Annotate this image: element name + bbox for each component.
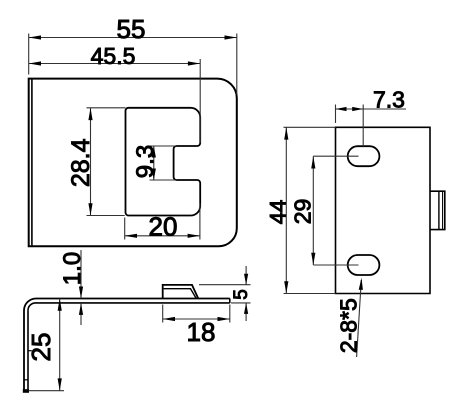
side view horizontal strip top edge with left bend <box>24 299 230 311</box>
dimension 25 extension line <box>29 390 64 392</box>
svg-text:28.4: 28.4 <box>67 138 95 187</box>
dimension 1.0 upper arrow line <box>80 250 82 299</box>
right view bottom slot <box>348 255 380 275</box>
dimension 5 upper arrow line <box>245 266 247 285</box>
dimension 20 line <box>125 235 200 237</box>
svg-text:20: 20 <box>149 212 178 242</box>
dimension 45.5 line <box>29 63 201 65</box>
dimension 18 arrows <box>163 317 230 321</box>
dimension 1.0 arrows <box>79 287 83 315</box>
side view bump outline <box>163 285 199 299</box>
svg-text:7.3: 7.3 <box>373 87 405 113</box>
svg-text:2-8*5: 2-8*5 <box>336 298 362 353</box>
side view strip bottom edge with inner bend <box>28 303 230 311</box>
side view leg outer edge <box>23 311 25 391</box>
side view strip right endcap <box>229 299 231 303</box>
dimension 45.5 extension line <box>199 59 201 143</box>
slot callout 2-8*5 arrow <box>359 278 363 290</box>
dimension 18 line <box>163 318 230 320</box>
side view bump inner thickness line <box>164 289 197 299</box>
side view leg bottom cap <box>23 389 29 393</box>
right view side tab inner line <box>438 191 440 229</box>
right view top slot <box>348 146 380 166</box>
svg-text:29: 29 <box>289 199 315 225</box>
dimension 45.5 arrows <box>29 61 201 65</box>
svg-text:25: 25 <box>26 333 56 362</box>
dimension 7.3 arrows <box>336 107 364 111</box>
dimension 1.0 lower arrow line <box>80 303 82 325</box>
front view outer outline <box>29 79 237 247</box>
dimension 44 line <box>285 127 287 293</box>
dimension 28.4 line <box>90 108 92 216</box>
side view leg tick mark lower <box>24 379 29 381</box>
dimension 5 arrows <box>244 274 248 314</box>
dimension 18 extension lines <box>163 305 230 323</box>
svg-text:44: 44 <box>265 200 290 224</box>
dimension 7.3 extension lines <box>336 105 364 147</box>
svg-text:9.3: 9.3 <box>132 145 159 178</box>
dimension 55 extension lines <box>29 34 237 95</box>
svg-text:45.5: 45.5 <box>91 43 136 69</box>
dimension 29 arrows <box>311 156 315 265</box>
dimension 20 extension lines <box>125 204 200 240</box>
side view leg inner edge <box>27 310 29 390</box>
dimension 5 lower arrow line <box>245 303 247 321</box>
dimension 9.3 extension lines <box>150 146 177 180</box>
dimension 7.3 line <box>336 108 407 110</box>
slot callout 2-8*5 leader line <box>357 280 362 357</box>
dimension 9.3 arrows <box>152 146 156 180</box>
dimension 29 line <box>312 156 314 265</box>
dimension 20 arrows <box>125 234 200 238</box>
front view left flange thickness line <box>31 79 33 245</box>
dimension 29 extension lines <box>313 156 358 265</box>
dimension 44 arrows <box>284 127 288 293</box>
side view leg tick mark upper <box>28 350 32 352</box>
svg-text:18: 18 <box>187 317 216 347</box>
dimension 28.4 arrows <box>88 108 92 216</box>
dimension 44 extension lines <box>284 127 336 293</box>
dimension 55 arrows <box>29 35 237 39</box>
right view side tab <box>430 191 445 229</box>
right view rectangle <box>336 127 431 293</box>
svg-text:1.0: 1.0 <box>59 252 86 285</box>
dimension 28.4 extension lines <box>87 108 126 216</box>
dimension 25 arrows <box>58 299 62 391</box>
dimension 55 line <box>29 37 237 39</box>
svg-text:55: 55 <box>117 14 146 44</box>
dimension 5 extension lines <box>199 285 251 303</box>
right view side tab thickness line <box>442 192 444 230</box>
dimension 25 line <box>59 299 61 391</box>
svg-text:5: 5 <box>231 289 252 300</box>
dimension 9.3 line <box>153 146 155 180</box>
front view C-shaped cutout <box>126 108 201 216</box>
